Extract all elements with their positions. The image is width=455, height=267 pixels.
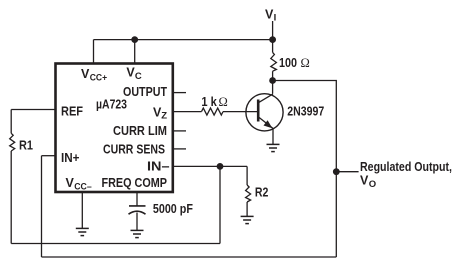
svg-text:5000 pF: 5000 pF [153,202,193,216]
svg-text:100: 100 [279,56,300,70]
svg-text:O: O [369,179,376,190]
svg-text:OUTPUT: OUTPUT [123,85,167,99]
svg-text:C: C [135,71,142,82]
svg-text:Regulated Output,: Regulated Output, [360,160,452,174]
svg-text:REF: REF [61,105,83,119]
svg-text:I: I [274,13,277,24]
svg-text:2N3997: 2N3997 [287,104,324,118]
svg-text:CURR SENS: CURR SENS [103,143,165,157]
svg-text:R1: R1 [19,138,33,152]
svg-text:V: V [81,67,90,81]
svg-text:V: V [360,174,369,188]
svg-text:Z: Z [161,110,167,121]
svg-text:CURR LIM: CURR LIM [113,124,167,138]
svg-text:Ω: Ω [301,56,310,70]
svg-text:IN+: IN+ [61,151,80,165]
svg-text:1 k: 1 k [201,95,217,109]
svg-text:µA723: µA723 [96,98,127,112]
svg-text:R2: R2 [255,185,269,199]
svg-text:CC–: CC– [74,181,92,192]
svg-text:V: V [66,176,75,190]
svg-text:IN–: IN– [147,160,170,174]
svg-text:CC+: CC+ [90,72,108,83]
svg-text:FREQ COMP: FREQ COMP [102,176,168,190]
svg-text:Ω: Ω [219,95,228,109]
